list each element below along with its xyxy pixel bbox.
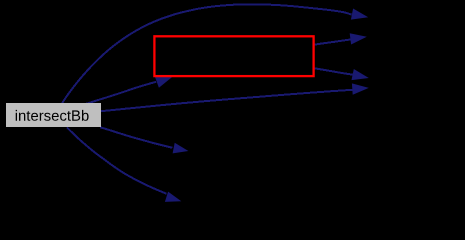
arrowhead: lower-middle callee: [173, 143, 189, 154]
arrowhead: mid-right callee lower: [352, 83, 369, 94]
edge: intersectBb to red node: [85, 82, 156, 104]
label intersectBb: [16, 110, 89, 121]
node intersectBb (grey filled): [6, 103, 101, 127]
edge: intersectBb long line to mid-right callee: [101, 90, 353, 111]
edge: red node to third callee: [315, 68, 353, 74]
arrowhead: third callee: [352, 69, 369, 80]
edge: intersectBb top arc to upper-right callee: [62, 4, 352, 103]
edge: intersectBb to lower-middle callee: [100, 127, 172, 148]
edge: intersectBb to bottom callee: [67, 128, 167, 194]
edge: red node to second callee: [315, 39, 351, 44]
arrowhead: top-right callee: [351, 9, 368, 20]
node: highlighted callee (red border): [154, 36, 313, 76]
arrowhead: second callee: [350, 33, 367, 44]
arrowhead: bottom callee: [165, 192, 181, 202]
arrowhead: into red node bottom-left: [155, 77, 173, 88]
